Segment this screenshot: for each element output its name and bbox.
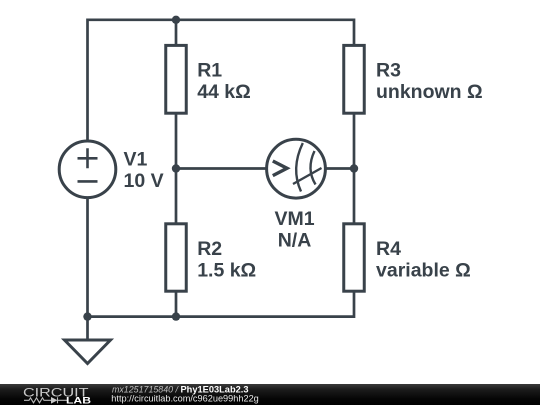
- svg-text:LAB: LAB: [66, 396, 91, 405]
- svg-text:R3: R3: [376, 60, 401, 82]
- logo diode triangle: [51, 397, 58, 404]
- wire R1 bottom to R2 top: [175, 113, 178, 224]
- svg-text:VM1: VM1: [274, 208, 314, 230]
- wire mid right: voltmeter to node B: [327, 167, 355, 170]
- svg-text:44 kΩ: 44 kΩ: [197, 81, 251, 103]
- ground: [65, 340, 111, 364]
- footer bar: [0, 384, 540, 405]
- wire ground stub: [86, 317, 89, 340]
- wire bottom rail: [88, 291, 355, 316]
- wire top: V1 top to top rail to R3 top: [88, 20, 355, 140]
- svg-text:1.5 kΩ: 1.5 kΩ: [197, 260, 256, 282]
- svg-text:R4: R4: [376, 238, 401, 260]
- node junction mid-left A (176,168.5): [172, 164, 180, 172]
- wire R1 top stub: [175, 20, 178, 46]
- svg-text:variable Ω: variable Ω: [376, 260, 471, 282]
- resistor R4: [344, 224, 471, 291]
- wire R2 bottom stub: [175, 291, 178, 316]
- resistor R2: [166, 224, 256, 291]
- voltage source V1: [59, 141, 163, 198]
- svg-text:10 V: 10 V: [124, 170, 164, 192]
- node junction bottom-left (88,316.5): [83, 312, 91, 320]
- node junction top (176,20): [172, 16, 180, 24]
- svg-text:V1: V1: [124, 149, 148, 171]
- node junction mid-right B (354,168.5): [350, 164, 358, 172]
- svg-text:R1: R1: [197, 60, 222, 82]
- logo resistor zigzag and diode: [24, 397, 67, 403]
- svg-text:http://circuitlab.com/c962ue99: http://circuitlab.com/c962ue99hh22g: [111, 394, 258, 405]
- svg-text:R2: R2: [197, 238, 222, 260]
- wire R3 bottom to R4 top: [353, 113, 356, 224]
- wire mid left: node A to voltmeter: [176, 167, 266, 170]
- resistor R3: [344, 45, 483, 113]
- svg-text:N/A: N/A: [278, 230, 312, 252]
- wire V1 bottom to bottom rail: [86, 199, 89, 317]
- svg-text:unknown Ω: unknown Ω: [376, 81, 483, 103]
- node junction bottom (176,316.5): [172, 312, 180, 320]
- voltmeter VM1: [267, 139, 326, 251]
- resistor R1: [166, 45, 251, 113]
